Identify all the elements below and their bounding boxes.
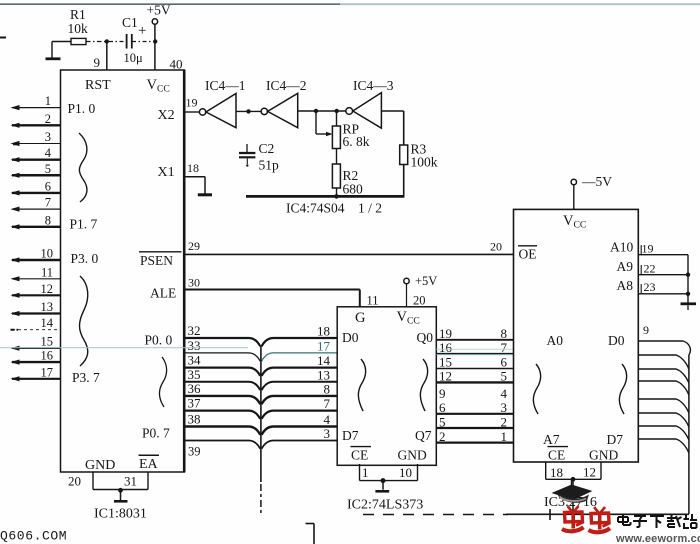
svg-text:9: 9	[643, 323, 649, 337]
svg-text:4: 4	[324, 412, 331, 427]
svg-text:37: 37	[188, 396, 202, 411]
svg-text:P0. 7: P0. 7	[142, 426, 170, 441]
svg-text:3: 3	[45, 130, 51, 144]
svg-text:VCC: VCC	[397, 309, 420, 327]
svg-text:GND: GND	[85, 458, 115, 473]
svg-text:17: 17	[41, 365, 54, 379]
svg-text:19: 19	[186, 96, 198, 110]
svg-text:www.eeworm.com: www.eeworm.com	[615, 533, 700, 544]
svg-text:Q7: Q7	[415, 428, 432, 443]
svg-text:IC1:8031: IC1:8031	[94, 507, 147, 522]
svg-text:8: 8	[501, 326, 508, 341]
svg-text:51p: 51p	[259, 158, 280, 173]
svg-text:A8: A8	[617, 278, 634, 293]
svg-text:19: 19	[642, 242, 654, 256]
svg-text:10: 10	[399, 465, 412, 480]
svg-text:P1. 0: P1. 0	[68, 101, 96, 116]
svg-text:12: 12	[439, 369, 452, 384]
svg-text:A0: A0	[547, 333, 564, 348]
svg-text:20: 20	[68, 474, 81, 489]
svg-text:16: 16	[439, 340, 453, 355]
svg-text:15: 15	[439, 355, 452, 370]
svg-text:P3. 7: P3. 7	[72, 370, 100, 385]
svg-text:6. 8k: 6. 8k	[343, 134, 370, 149]
svg-text:+: +	[138, 23, 146, 39]
svg-text:A7: A7	[543, 432, 560, 447]
svg-text:PSEN: PSEN	[140, 253, 173, 268]
svg-text:100k: 100k	[411, 155, 438, 170]
svg-text:CE: CE	[548, 448, 565, 463]
svg-text:33: 33	[188, 338, 201, 353]
svg-text:35: 35	[188, 367, 201, 382]
svg-text:7: 7	[501, 340, 508, 355]
svg-text:G: G	[355, 310, 366, 326]
svg-text:12: 12	[583, 465, 596, 480]
svg-text:3: 3	[324, 426, 331, 441]
svg-text:IC4—2: IC4—2	[266, 78, 307, 93]
svg-text:18: 18	[317, 324, 330, 339]
svg-text:2: 2	[501, 415, 508, 430]
svg-text:+5V: +5V	[415, 274, 437, 288]
svg-text:1: 1	[45, 94, 51, 108]
svg-text:Q606.COM: Q606.COM	[0, 529, 67, 544]
svg-text:9: 9	[439, 386, 446, 401]
svg-text:14: 14	[41, 316, 54, 330]
svg-text:A9: A9	[617, 259, 634, 274]
svg-text:6: 6	[439, 400, 446, 415]
svg-text:CE: CE	[351, 448, 368, 463]
svg-text:VCC: VCC	[147, 77, 170, 95]
svg-text:2: 2	[45, 112, 51, 126]
svg-text:13: 13	[317, 367, 330, 382]
svg-text:13: 13	[41, 300, 54, 314]
svg-text:4: 4	[501, 386, 508, 401]
svg-text:15: 15	[41, 335, 54, 349]
svg-text:RST: RST	[85, 78, 111, 93]
svg-text:R1: R1	[70, 7, 86, 22]
svg-text:6: 6	[45, 179, 51, 193]
svg-text:11: 11	[367, 294, 379, 308]
svg-text:IC2:74LS373: IC2:74LS373	[347, 498, 423, 513]
svg-text:8: 8	[324, 381, 331, 396]
svg-text:20: 20	[413, 294, 426, 308]
svg-text:+5V: +5V	[147, 3, 171, 18]
svg-text:16: 16	[41, 349, 54, 363]
svg-text:C2: C2	[259, 141, 275, 156]
svg-text:Q0: Q0	[417, 330, 434, 345]
svg-text:1: 1	[362, 465, 369, 480]
svg-text:ALE: ALE	[150, 286, 176, 301]
svg-text:P3. 0: P3. 0	[71, 251, 99, 266]
svg-text:8: 8	[45, 213, 51, 227]
svg-text:D0: D0	[608, 333, 625, 348]
svg-text:D7: D7	[607, 432, 624, 447]
svg-text:18: 18	[187, 161, 199, 175]
svg-text:1: 1	[501, 429, 508, 444]
svg-text:2: 2	[439, 429, 446, 444]
svg-text:20: 20	[490, 240, 502, 254]
svg-text:19: 19	[439, 326, 452, 341]
svg-text:IC4—3: IC4—3	[353, 78, 394, 93]
svg-text:X1: X1	[158, 165, 175, 180]
svg-text:29: 29	[188, 239, 200, 253]
svg-text:OE: OE	[519, 247, 537, 262]
svg-text:5: 5	[501, 369, 508, 384]
svg-text:14: 14	[317, 353, 331, 368]
svg-text:30: 30	[188, 276, 200, 290]
svg-text:GND: GND	[398, 448, 427, 463]
svg-text:12: 12	[41, 282, 54, 296]
svg-text:10k: 10k	[68, 21, 89, 36]
svg-text:1 / 2: 1 / 2	[358, 201, 382, 216]
svg-text:GND: GND	[589, 448, 618, 463]
svg-text:EA: EA	[139, 457, 159, 472]
svg-text:6: 6	[501, 355, 508, 370]
svg-text:31: 31	[124, 474, 137, 489]
svg-text:7: 7	[45, 196, 51, 210]
svg-text:IC4:74S04: IC4:74S04	[286, 201, 345, 216]
svg-text:A10: A10	[610, 240, 633, 255]
svg-text:D7: D7	[342, 428, 359, 443]
svg-text:680: 680	[343, 182, 364, 197]
svg-text:38: 38	[188, 412, 201, 427]
svg-text:23: 23	[644, 280, 656, 294]
svg-text:17: 17	[317, 338, 331, 353]
svg-text:10μ: 10μ	[124, 51, 144, 65]
svg-text:22: 22	[644, 262, 656, 276]
svg-text:9: 9	[94, 55, 101, 70]
svg-text:39: 39	[188, 445, 201, 459]
svg-text:P1. 7: P1. 7	[70, 217, 98, 232]
svg-text:11: 11	[41, 265, 53, 279]
svg-text:7: 7	[324, 396, 331, 411]
svg-text:P0. 0: P0. 0	[145, 333, 173, 348]
svg-text:4: 4	[45, 146, 52, 160]
svg-text:3: 3	[501, 400, 508, 415]
svg-text:5: 5	[439, 415, 446, 430]
svg-text:X2: X2	[158, 108, 175, 123]
svg-text:C1: C1	[122, 15, 138, 30]
svg-text:34: 34	[188, 353, 202, 368]
svg-text:36: 36	[188, 381, 202, 396]
svg-text:18: 18	[550, 465, 563, 480]
svg-text:10: 10	[41, 247, 54, 261]
svg-text:—5V: —5V	[581, 174, 612, 189]
svg-text:32: 32	[188, 323, 201, 338]
svg-text:D0: D0	[342, 330, 359, 345]
svg-text:IC4—1: IC4—1	[205, 78, 246, 93]
svg-text:VCC: VCC	[563, 213, 586, 231]
svg-text:5: 5	[45, 162, 51, 176]
